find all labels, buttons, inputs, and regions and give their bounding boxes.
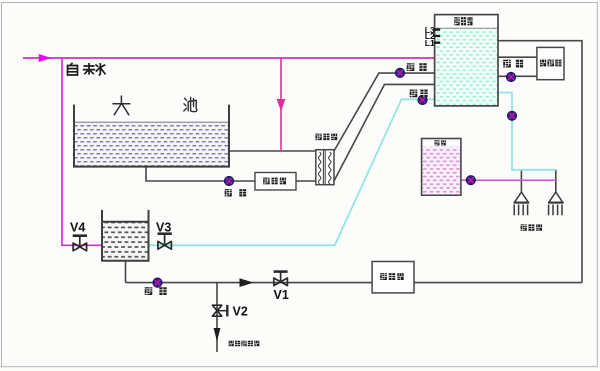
wire: water treatment box to heat exchanger (296, 180, 316, 182)
wire: magenta shower supply from solar tank (461, 179, 556, 181)
big pool water fill (75, 122, 228, 166)
svg-text:V1: V1 (274, 288, 289, 302)
wire: cyan hot tank right side down to showers (498, 93, 556, 170)
small tank water fill (103, 222, 148, 260)
wire: hot tank right to air-energy box upper (498, 56, 537, 58)
wire: magenta branch down-left to V4 and small tank (62, 58, 102, 245)
pump on air-energy line (506, 72, 515, 81)
wire: pool right outlet to heat exchanger (229, 150, 316, 152)
label 水 泵 (pool pump) (225, 189, 246, 196)
valve V1 (274, 272, 288, 286)
arrow on bottom pipe (240, 278, 254, 287)
wire: pool bottom outlet down and right to water-treatment box (146, 167, 255, 181)
big pool water top line (75, 121, 228, 123)
svg-text:V4: V4 (70, 221, 85, 235)
label 去下水管网 (to sewer) (229, 341, 260, 347)
pump on magenta shower line (466, 176, 475, 185)
arrow on tap water line (39, 54, 52, 62)
label 洗澡盆 (521, 224, 542, 230)
wire: hot tank right to air-energy loop, right border down to bottom pipe (498, 41, 582, 283)
arrow down on magenta branch (277, 99, 286, 112)
wire: magenta branch down to pool outlet line (280, 58, 282, 151)
wire: cyan V3 to hot tank lower-left inlet (149, 99, 435, 245)
wire: shower drop lines (521, 170, 555, 192)
label 水 泵 (upper diagonal pump) (407, 63, 427, 71)
来 (83, 63, 95, 75)
pump on cyan down line (507, 111, 516, 120)
wire: small tank bottom pipe down to main bottom pipe (125, 261, 127, 283)
svg-text:L1: L1 (425, 38, 435, 48)
pump at pool bottom line (224, 176, 233, 185)
air energy box (空气能) (537, 47, 564, 79)
label: 大 (113, 96, 130, 115)
arrow on drain line (214, 328, 221, 342)
water treatment box (水处理) (255, 173, 296, 191)
water meter/treatment box on bottom pipe (372, 262, 414, 293)
level sensor ticks L3 L2 L1 (434, 30, 441, 43)
hot water tank body (435, 15, 498, 106)
wire: heat exchanger lower-right diagonal to hot tank (y=84.4) (334, 84, 435, 181)
wire: heat exchanger upper-right diagonal to hot tank (y=73) (334, 73, 435, 151)
pump on cyan inlet line (418, 95, 427, 104)
水 (95, 63, 105, 75)
label: 换热器 (315, 134, 337, 141)
label: 池 (184, 97, 197, 111)
wire: tap water main horizontal (23, 57, 435, 59)
valve V4 (73, 236, 87, 251)
shower head 1 (514, 192, 530, 215)
small tank water top line (103, 221, 149, 223)
big pool walls (74, 105, 229, 167)
svg-text:V3: V3 (156, 221, 171, 235)
label: 自来水 (tap water) (68, 63, 106, 75)
label: 热水箱 (454, 17, 472, 25)
shower head 2 (548, 192, 564, 215)
pump on upper diagonal line (395, 68, 404, 77)
label 水 泵 (bottom pipe pump) (145, 287, 167, 295)
valve V3 (158, 234, 172, 250)
valve V2 (vertical) (212, 305, 227, 317)
wire: V2 drain branch down (216, 283, 218, 352)
label on magenta tank (434, 140, 445, 145)
自 (68, 63, 78, 75)
small tank walls (102, 210, 149, 261)
magenta tank body (422, 139, 461, 196)
label 水 泵 (air energy pump) (503, 60, 523, 68)
wire: main bottom pipe (126, 282, 583, 284)
pump on bottom pipe (153, 278, 162, 287)
label 水 泵 (cyan inlet pump) (410, 90, 428, 98)
heat exchanger body (316, 150, 334, 185)
wire: hot tank right to air-energy box (pump line) (498, 75, 537, 77)
svg-text:V2: V2 (233, 305, 248, 319)
